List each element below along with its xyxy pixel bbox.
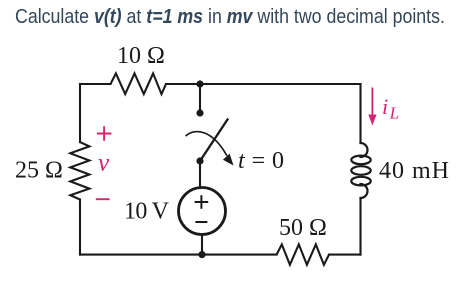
wire switch to source — [199, 161, 201, 188]
label - of v — [96, 198, 110, 200]
node switch lower terminal dot — [196, 157, 203, 164]
resistor R1 10 ohm zigzag — [111, 73, 167, 94]
voltage source V1 circle — [179, 188, 226, 235]
wire right vertical lower — [359, 198, 361, 255]
svg-text:iL: iL — [382, 94, 399, 123]
wire switch stub from top wire — [199, 84, 201, 113]
wire top left horizontal — [80, 83, 111, 85]
svg-text:10 Ω: 10 Ω — [117, 43, 165, 69]
label + inside source — [195, 195, 209, 209]
title text — [15, 6, 445, 29]
switch closing arc arrow — [186, 132, 233, 166]
svg-text:10 V: 10 V — [124, 199, 170, 225]
resistor R3 50 ohm zigzag — [277, 244, 329, 264]
wire source to bottom — [201, 235, 203, 255]
wire left vertical upper — [79, 84, 81, 142]
label - inside source — [195, 221, 207, 223]
svg-text:50 Ω: 50 Ω — [279, 215, 327, 241]
wire right vertical upper — [359, 84, 361, 143]
svg-text:40 mH: 40 mH — [379, 158, 449, 184]
wire bottom left horizontal — [80, 254, 277, 256]
node switch upper terminal dot — [196, 109, 203, 116]
wire bottom right horizontal — [329, 254, 361, 256]
node junction dot top wire — [196, 80, 203, 87]
label + of v — [97, 126, 112, 140]
wire top right horizontal — [166, 83, 361, 85]
current arrow iL — [368, 88, 376, 125]
wire left vertical lower — [79, 200, 81, 255]
node junction dot bottom wire — [198, 251, 205, 258]
inductor L1 40 mH coil — [351, 143, 370, 198]
svg-text:v: v — [98, 150, 110, 177]
svg-text:25 Ω: 25 Ω — [15, 158, 63, 184]
svg-text:t = 0: t = 0 — [238, 148, 284, 174]
resistor R2 25 ohm zigzag — [70, 142, 89, 199]
switch blade — [200, 120, 228, 162]
